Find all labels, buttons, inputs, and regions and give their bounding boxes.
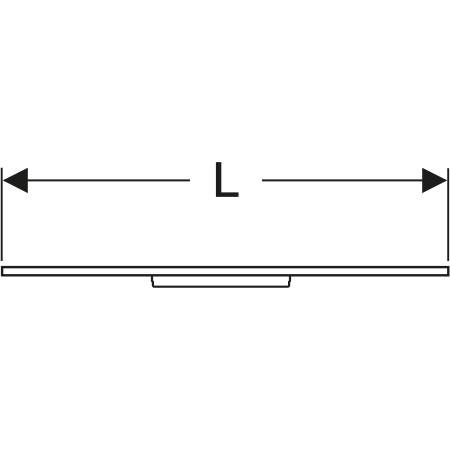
svg-text:L: L xyxy=(212,153,240,208)
